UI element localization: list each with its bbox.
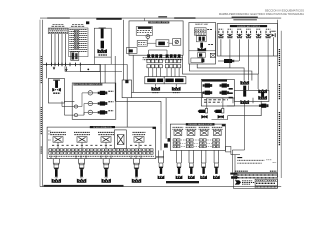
solenoid assembly SA7 bbox=[188, 150, 195, 179]
wire: valve V7 drop bbox=[273, 37, 275, 56]
wire: valve V2 drop bbox=[229, 39, 231, 68]
solenoid assembly SA5 bbox=[158, 124, 165, 179]
node: table B lower connector cluster bbox=[71, 52, 79, 61]
node: title block outline bbox=[233, 174, 277, 189]
node: revision row right text bbox=[270, 170, 276, 172]
valve V6 bbox=[265, 31, 270, 38]
sensor blob P4 bbox=[220, 91, 230, 95]
wire: unit links to connector rows bbox=[58, 142, 139, 149]
wire: table A drop 3 bbox=[58, 34, 60, 65]
node: SPARE label bbox=[230, 173, 237, 175]
relay bowtie symbol bbox=[97, 49, 107, 53]
battery B1 box with blob bbox=[156, 40, 169, 47]
solenoid bar RB2 bbox=[261, 92, 264, 99]
node: pressure labels row bbox=[204, 99, 228, 101]
node: top border label dash bbox=[158, 16, 167, 17]
svg-text:SECCION IV ESQUEMATICOS: SECCION IV ESQUEMATICOS bbox=[265, 8, 304, 12]
node: right match-line rotated text upper bbox=[278, 49, 280, 66]
node: continued label bar bbox=[233, 19, 257, 20]
gauge unit GU1 bbox=[173, 127, 184, 135]
node: solenoid box outline bbox=[217, 24, 277, 56]
wire: table A drop 5 bbox=[64, 34, 66, 65]
node: alarm box outline bbox=[48, 78, 64, 103]
solenoid assembly SA9 bbox=[213, 150, 220, 179]
relay coil R1 upper bolt bbox=[99, 28, 106, 29]
wire: washdown row2 link bbox=[93, 103, 98, 105]
valve V1 bbox=[218, 31, 223, 38]
node: table B outline bbox=[69, 28, 88, 57]
node: stack1 box row 2 bbox=[147, 65, 163, 68]
node: box2 bottom label row 2 bbox=[143, 59, 183, 61]
node: logo arrow bbox=[235, 180, 241, 184]
connector J3 table bbox=[194, 28, 206, 35]
wire: left border outer line bbox=[39, 20, 41, 187]
connector stack group 1 bbox=[147, 54, 163, 76]
svg-text:24 VDC DISTRIBUTION: 24 VDC DISTRIBUTION bbox=[93, 127, 112, 129]
connector stack group 2 bbox=[165, 54, 180, 76]
solenoid assembly SA2 bbox=[77, 159, 87, 183]
wire: left feed x215.7 bbox=[215, 31, 217, 56]
svg-text:AMBIENT HEAT: AMBIENT HEAT bbox=[195, 23, 209, 26]
node: title row 1 dense text bbox=[234, 174, 276, 176]
node: distbox1 bottom ticks bbox=[51, 156, 141, 159]
node: stack1 box row 1 bbox=[147, 59, 163, 63]
wire: washdown row1 link bbox=[93, 92, 98, 94]
node: top border thick segment A2 bbox=[96, 18, 121, 20]
wire: stack1 drops bbox=[149, 68, 161, 77]
wire: right match-line inner bbox=[277, 20, 279, 178]
node: left match-line rotated text third bbox=[40, 147, 42, 155]
node: title sub-table bbox=[255, 179, 277, 188]
node: box3 48V label bbox=[208, 44, 213, 46]
node: sub-table top small text bbox=[256, 179, 264, 181]
node: solenoid label row bbox=[219, 28, 271, 30]
node: notes text line 1b bbox=[266, 159, 272, 161]
wire: alarm feed vertical bbox=[46, 66, 48, 78]
wire: long horizontal y101.3 bbox=[115, 100, 161, 102]
node: stack1 blobs row bbox=[147, 54, 150, 57]
pressure switch S3 circle bbox=[88, 110, 92, 114]
node: distbox2 header bar bbox=[186, 123, 215, 125]
fuse unit FU3 bbox=[98, 132, 114, 142]
node: sub-table dense text mid bbox=[256, 182, 275, 184]
node: solenoid header bar bbox=[230, 25, 267, 27]
node: table B header text bbox=[72, 23, 84, 25]
spare arrow symbol bbox=[231, 175, 239, 179]
node: notes text line 1 bbox=[237, 159, 264, 161]
relay K2 small box lower-left bbox=[126, 48, 137, 54]
svg-text:EXTREME PRESSURE WASHDOWN SYST: EXTREME PRESSURE WASHDOWN SYSTEM bbox=[70, 83, 107, 86]
wire: vertical drop x100.4 to washdown bbox=[99, 64, 101, 83]
wire: manifold bowtie links bbox=[155, 84, 157, 87]
node: left match-line rotated text lower bbox=[40, 107, 42, 135]
relay coil R1 lower bolt bbox=[101, 41, 104, 49]
wire: washdown feed left bbox=[61, 101, 63, 106]
coil bowtie RC1 bbox=[240, 81, 249, 85]
relief blob RV1 bbox=[259, 104, 269, 108]
node: CB1 label bbox=[152, 92, 159, 94]
node: distbox1 connector row 2 bbox=[49, 152, 153, 154]
pressure switch S2 circle bbox=[88, 101, 92, 105]
solenoid L1 blob bbox=[98, 91, 108, 95]
node: stack2 box row 1 bbox=[165, 59, 180, 63]
wire: left border inner line bbox=[42, 20, 44, 187]
wire: nested U route 2 bbox=[189, 64, 252, 81]
wire: vertical x133.2 bbox=[132, 55, 134, 92]
node: table B connector column boxes bbox=[74, 30, 79, 48]
coil bowtie RC2 bbox=[240, 100, 249, 104]
coil bowtie CB2 bbox=[172, 87, 181, 91]
node: table A header text bbox=[53, 23, 64, 25]
alarm horn bowtie with label bbox=[52, 88, 61, 92]
solenoid assembly SA8 bbox=[200, 150, 207, 179]
sensor blob P1 bbox=[203, 83, 213, 87]
node: right match-line rotated text middle bbox=[278, 84, 280, 100]
solenoid L2 blob bbox=[98, 101, 108, 105]
node: right group ground bus bar bbox=[166, 181, 199, 183]
node: connector blob right of tables bbox=[86, 21, 89, 24]
wire: nested U route 3 bbox=[183, 55, 259, 89]
node: left match-line rotated text upper bbox=[40, 56, 42, 84]
node: distbox2 row fill ticks bbox=[173, 139, 220, 141]
node: logo text lines bbox=[242, 180, 252, 182]
node: box3 outline bbox=[189, 23, 216, 65]
wire: vertical feed x127 from relay run bbox=[126, 64, 128, 80]
heater bolt assembly bbox=[200, 43, 203, 48]
wire: valve V4 drop bbox=[248, 39, 250, 80]
coil bowtie MC1 bbox=[201, 115, 207, 119]
node: stack2 box row 2 bbox=[165, 65, 180, 68]
solenoid assembly SA1 bbox=[52, 159, 62, 183]
sender blob bottom bbox=[191, 58, 203, 63]
wire: valve V1 drop bbox=[220, 39, 222, 56]
gauge unit GU4 bbox=[212, 127, 223, 135]
thermostat X1 box row bbox=[198, 53, 206, 58]
wire: stacks top feeds bbox=[149, 50, 172, 55]
sensor G1 circle bbox=[146, 35, 150, 39]
node: box2 bottom label row 1 bbox=[143, 57, 183, 59]
node: junction box top tick bbox=[125, 80, 128, 83]
node: box2 sub box left bbox=[137, 41, 147, 47]
wire: right match-line outer bbox=[280, 31, 282, 178]
node: distbox2 connector rows bbox=[173, 139, 219, 148]
node: junction dot on stub bbox=[87, 69, 89, 71]
alarm horn Y02 bolt bbox=[53, 80, 60, 81]
node: distbox1 bottom text row bbox=[49, 155, 154, 157]
wire: solenoid drop join A bbox=[235, 60, 239, 62]
wire: horizontal y71.5 run bbox=[65, 71, 122, 73]
washdown left terminal T1 bbox=[74, 105, 77, 108]
wire: valve V6 drop bbox=[267, 39, 269, 90]
node: bus arrow 1 bbox=[53, 67, 55, 70]
gauge M1 box bbox=[173, 39, 181, 46]
wire: vertical drop x105.1 to washdown bbox=[104, 64, 106, 83]
node: component blob on x166 wire bbox=[164, 144, 167, 148]
node: table B greek rows bbox=[69, 29, 87, 51]
node: box3 divider bbox=[189, 50, 216, 52]
node: junction box outline bbox=[122, 80, 131, 98]
node: washdown box outline bbox=[72, 83, 116, 119]
heater element E1 cluster bbox=[196, 36, 206, 42]
valve V5 bbox=[256, 31, 261, 38]
node: top border thick segment A bbox=[47, 18, 70, 19]
wire: spare feed lines bbox=[231, 101, 245, 173]
wire: bottom border line bbox=[40, 186, 281, 188]
node: distbox1 mid label row bbox=[52, 144, 113, 146]
wire: washdown row3 link bbox=[93, 111, 98, 113]
wire: SA5 feed bbox=[160, 124, 162, 150]
node: distbox2 corner blob bbox=[222, 124, 225, 126]
node: distbox1 connector row 1 bbox=[49, 149, 153, 151]
svg-text:+: + bbox=[167, 41, 169, 44]
wire: mid assy feeds bbox=[207, 98, 223, 108]
node: top border thick segment C bbox=[232, 17, 258, 18]
wire: long horizontal y97.7 bbox=[132, 98, 234, 104]
node: distbox1 outline bbox=[47, 127, 156, 159]
wire: table A drop 2 bbox=[54, 34, 56, 65]
wire: vertical x115.2 bbox=[114, 56, 116, 101]
valve V3 bbox=[237, 31, 242, 38]
node: pressure box outline bbox=[201, 79, 234, 106]
fuse unit FU4 bbox=[133, 132, 146, 142]
node: distbox1 header bar bbox=[90, 126, 115, 128]
node: distbox1 row fill ticks bbox=[49, 149, 154, 151]
node: distbox1 corner blob bbox=[153, 127, 156, 129]
node: relay label Y07 bbox=[99, 54, 107, 56]
node: revision row left text bbox=[235, 170, 248, 172]
wire: table A drop 1 bbox=[51, 34, 53, 65]
coil bowtie RC3 bbox=[258, 89, 267, 93]
coil bowtie CB1 bbox=[151, 87, 160, 91]
node: E-bracket marks bbox=[229, 88, 233, 90]
node: box3 48T label bbox=[207, 29, 212, 31]
node: pressure box header bar bbox=[202, 80, 227, 82]
bolt blob MA2 bbox=[214, 108, 224, 113]
sensor blob P3 bbox=[203, 91, 213, 95]
wire: stack2 drops bbox=[167, 68, 179, 77]
fuse unit FU1 bbox=[50, 132, 66, 142]
node: distbox2 right exit box bbox=[226, 146, 231, 152]
fuse F2 blob bbox=[218, 59, 234, 63]
wire: terminal bus line bbox=[43, 63, 87, 65]
wire: revision separator line bbox=[234, 172, 277, 174]
solenoid assembly SA6 bbox=[176, 150, 183, 179]
sensor blob P2 bbox=[220, 83, 230, 87]
wire: relay box bottom drops bbox=[93, 57, 95, 64]
node: notes text line 2 bbox=[237, 162, 261, 164]
node: table A grid bbox=[48, 28, 68, 34]
wire: long horizontal y92.4 bbox=[132, 92, 203, 98]
node: top border thick segment B bbox=[174, 17, 195, 18]
connector J2 cluster bbox=[136, 27, 152, 36]
coil bowtie RC4 bbox=[258, 96, 267, 100]
node: relay box outline bbox=[94, 28, 111, 57]
node: bus arrow 2 bbox=[65, 67, 67, 71]
washdown left terminal T2 bbox=[74, 114, 77, 117]
valve manifold VM1 bbox=[145, 77, 164, 84]
wire: loop rectangle bbox=[234, 90, 269, 101]
wire: valve V5 drop bbox=[258, 39, 260, 74]
valve V2 bbox=[227, 31, 232, 38]
wire: top border line bbox=[40, 17, 281, 19]
node: distbox2 outline bbox=[170, 124, 225, 150]
gauge unit GU3 bbox=[199, 127, 210, 135]
valve manifold VM2 bbox=[164, 77, 186, 84]
solenoid assembly SA3 bbox=[101, 159, 111, 183]
wire: nested U route 1 bbox=[197, 64, 244, 81]
node: bottom border thick segment A bbox=[44, 185, 124, 187]
wire: right cluster links bbox=[212, 85, 262, 119]
wire: box2 internal links bbox=[144, 18, 172, 43]
wire: table A drop 4 bbox=[61, 34, 63, 65]
node: box2 outline bbox=[129, 21, 183, 55]
wire: vertical x166.1 with component bbox=[165, 98, 167, 139]
node: table A greek text rows bbox=[49, 28, 67, 30]
node: sub-table dense text bottom bbox=[256, 186, 277, 188]
node: bus terminal ticks bbox=[47, 63, 81, 67]
fuse unit FU2 bbox=[74, 132, 90, 142]
node: stack2 blobs row bbox=[166, 54, 169, 57]
node: notes text line 2b bbox=[273, 162, 277, 164]
wire: vertical x161 drop bbox=[160, 101, 162, 124]
wire: distbox1 right exits bbox=[156, 155, 164, 157]
wire: vertical x122.0 top bbox=[122, 20, 124, 80]
node: right match-line rotated text lower bbox=[278, 112, 280, 146]
solenoid assembly SA4 bbox=[132, 159, 142, 183]
node: box2 header bar bbox=[148, 21, 169, 23]
wire: washdown internal risers bbox=[78, 93, 89, 107]
svg-text:PRESSURE GAUGE CLUSTER: PRESSURE GAUGE CLUSTER bbox=[188, 123, 213, 126]
valve V7 arrow symbol bbox=[271, 31, 275, 37]
svg-text:MAMBA PERFORADORA: ELECTRICO P: MAMBA PERFORADORA: ELECTRICO PARA POZOS … bbox=[219, 12, 304, 16]
node: distbox1 left margin marks bbox=[48, 131, 50, 140]
wire: alarm box right exit bbox=[64, 100, 74, 102]
wire: feed rect above bbox=[207, 97, 235, 99]
svg-text:SOLENOID / AIR CONTROLS: SOLENOID / AIR CONTROLS bbox=[237, 25, 261, 28]
wire: horizontal run y64.4 bbox=[87, 63, 127, 65]
coil bowtie MC2 bbox=[218, 115, 224, 119]
node: NOTES heading bbox=[237, 157, 242, 159]
node: CB2 label bbox=[173, 92, 180, 94]
node: washdown header bar bbox=[73, 83, 102, 85]
wire: bus right stub rectangle bbox=[80, 64, 100, 71]
pressure switch S1 circle bbox=[88, 91, 92, 95]
breaker unit special bbox=[115, 130, 127, 149]
valve V4 bbox=[246, 31, 251, 38]
solenoid bar RB1 bbox=[243, 86, 246, 97]
wire: valve V3 drop bbox=[239, 39, 241, 61]
wire: vertical x127 below junction to dist box bbox=[126, 98, 128, 127]
node: alarm label Y02 bbox=[53, 92, 60, 94]
node: title row 2 dense text bbox=[234, 177, 276, 179]
node: distbox2 left terminal blob bbox=[168, 138, 171, 141]
bolt blob MA1 bbox=[198, 108, 208, 113]
solenoid L3 blob bbox=[98, 110, 108, 114]
gauge unit GU2 bbox=[186, 127, 197, 135]
